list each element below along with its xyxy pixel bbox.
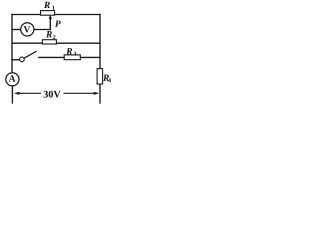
- wire bottom right below R4: [99, 84, 101, 103]
- label P: [55, 21, 61, 27]
- wire R3 row right: [80, 56, 100, 58]
- resistor R4: [97, 69, 103, 84]
- wire voltmeter row right to slider: [34, 29, 50, 31]
- resistor R1: [41, 11, 55, 16]
- wire voltmeter row left: [12, 29, 21, 31]
- wire switch row right: [39, 56, 64, 58]
- slider arrow P (wiper of R1): [49, 15, 53, 19]
- wire slider shaft: [49, 18, 51, 30]
- label R4: [103, 75, 111, 82]
- resistor R3: [64, 55, 80, 60]
- wire left border: [11, 15, 13, 73]
- label R3: [66, 48, 76, 56]
- ammeter A: [6, 73, 19, 86]
- label R2: [46, 31, 55, 39]
- 30V dimension arrow right: [64, 92, 100, 95]
- label R1: [44, 2, 55, 10]
- 30V dimension arrow left: [14, 92, 41, 95]
- wire bottom left below ammeter: [11, 86, 13, 103]
- label 30V: [44, 91, 61, 98]
- voltmeter V: [21, 23, 34, 36]
- wire R2 row right: [56, 42, 100, 44]
- switch S: [20, 51, 37, 62]
- wire right border: [99, 15, 101, 69]
- wire R2 row left: [12, 42, 42, 44]
- wire switch row left stub: [12, 59, 20, 61]
- wire top: [12, 14, 100, 16]
- resistor R2: [42, 40, 56, 44]
